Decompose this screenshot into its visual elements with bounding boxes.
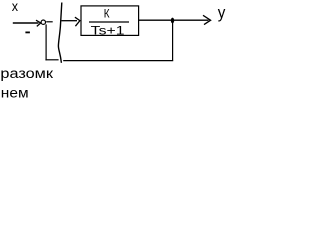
input arrowhead [36,20,41,26]
wire output [139,19,209,21]
node junction dot [171,18,174,24]
svg-text:нем: нем [1,86,29,98]
svg-text:Ts+1: Ts+1 [91,24,125,38]
output arrowhead [203,15,211,24]
wire feedback vertical left [45,24,47,60]
block W(s) rectangle [81,6,139,36]
svg-text:разомк: разомк [0,66,53,81]
minus sign at summing junction [25,31,30,33]
wire stub right of circle [46,21,53,23]
wire feedback bottom right segment [63,60,173,62]
summing junction circle [41,20,45,24]
wire input arrow line [13,22,39,24]
loop-break stroke (hand-drawn cut mark) [58,3,61,63]
svg-text:x: x [12,0,18,14]
arrowhead into block [75,17,80,26]
wire to block [62,20,78,22]
wire feedback vertical right [172,21,174,61]
fraction bar [89,21,129,23]
wire feedback bottom left segment [45,59,58,61]
svg-text:y: y [218,4,226,22]
svg-text:К: К [104,6,110,20]
